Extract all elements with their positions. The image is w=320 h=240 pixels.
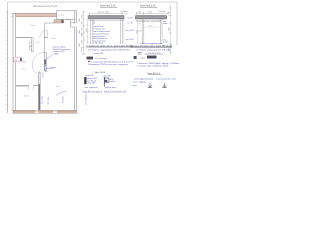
exterior wall top (tan) bbox=[13, 13, 57, 17]
S2 right wall line bbox=[160, 19, 162, 44]
door D2 swing arc bbox=[32, 53, 44, 74]
S1 band underline bbox=[89, 20, 125, 22]
svg-text:Зала: Зала bbox=[56, 86, 62, 88]
svg-text:2 Начало: ЖБИ (Выб. фунд.) 125: 2 Начало: ЖБИ (Выб. фунд.) 1250мм bbox=[137, 62, 180, 65]
svg-text:гайка М12: гайка М12 bbox=[87, 82, 95, 85]
S1 slab band bbox=[89, 16, 125, 19]
top-left corner bracket bbox=[11, 13, 13, 17]
svg-text:анкер Ø10: анкер Ø10 bbox=[103, 76, 111, 78]
bottom wall window gap 2 bbox=[53, 111, 57, 114]
svg-text:760: 760 bbox=[149, 25, 152, 27]
svg-text:900: 900 bbox=[82, 34, 84, 37]
V1 fixtures bbox=[29, 42, 31, 45]
bottom wall window gap 1 bbox=[35, 111, 38, 114]
svg-text:600: 600 bbox=[82, 15, 84, 18]
S1 left dim ticks bbox=[86, 25, 88, 42]
svg-text:грунт: грунт bbox=[133, 85, 137, 87]
right exterior wall bbox=[75, 11, 77, 111]
bottom exterior wall (tan) bbox=[13, 110, 77, 113]
svg-text:-0.150: -0.150 bbox=[163, 42, 168, 44]
svg-text:2-этажный жилой дом поз.14 по: 2-этажный жилой дом поз.14 по ГП bbox=[90, 60, 133, 63]
S2 far right dimension chain bbox=[169, 5, 173, 55]
svg-text:Стяжка 105 и 250мм 2х50: Стяжка 105 и 250мм 2х50 bbox=[137, 66, 168, 68]
svg-text:болт анкерный: болт анкерный bbox=[85, 86, 97, 89]
svg-text:ширина 1250: ширина 1250 bbox=[97, 11, 110, 13]
interior wall V3 bbox=[39, 72, 41, 110]
wall junction right bbox=[65, 20, 75, 28]
S1 left dim column bbox=[86, 16, 88, 44]
svg-text:песч. подушка: песч. подушка bbox=[133, 82, 147, 84]
svg-text:Узел №2 1:10: Узел №2 1:10 bbox=[140, 5, 156, 8]
pink box dark tick bbox=[20, 58, 22, 61]
svg-text:1200: 1200 bbox=[79, 18, 81, 22]
pink detail box bbox=[14, 57, 22, 62]
S1 rebar ticks bbox=[93, 20, 94, 25]
svg-text:220: 220 bbox=[169, 11, 171, 14]
mini detail B text rows bbox=[110, 79, 115, 83]
wall note text block (blue) bbox=[53, 47, 71, 56]
S1 left wall line bbox=[91, 19, 93, 44]
svg-text:1200: 1200 bbox=[79, 43, 81, 47]
svg-text:утепл.: утепл. bbox=[50, 67, 56, 69]
mini detail A text rows bbox=[87, 78, 97, 85]
interior tan wall under wing bbox=[54, 20, 64, 23]
svg-text:слой гидроизоляции: слой гидроизоляции bbox=[134, 78, 153, 81]
svg-text:дюбель расп.: дюбель расп. bbox=[105, 87, 117, 89]
svg-text:ПР-1 250: ПР-1 250 bbox=[42, 96, 44, 104]
interior wall V2 bbox=[44, 53, 46, 71]
svg-text:1280: 1280 bbox=[169, 27, 171, 31]
sheet frame top border bbox=[8, 2, 178, 113]
red dash bbox=[23, 61, 25, 64]
svg-text:ПР-2 120: ПР-2 120 bbox=[48, 97, 50, 105]
svg-text:С3-1: С3-1 bbox=[36, 42, 40, 44]
V2 hatch bottom tick bbox=[44, 71, 47, 73]
interior wall H1 bbox=[16, 37, 48, 39]
door D1 leaf bbox=[46, 30, 48, 38]
interior wall V1 bbox=[32, 38, 34, 52]
V2 insulation hatch (blue) bbox=[44, 64, 47, 70]
svg-text:1 ЖБ литье: 1 ЖБ литье bbox=[93, 42, 103, 44]
left exterior wall bbox=[13, 13, 16, 110]
svg-text:стяжка: стяжка bbox=[140, 57, 145, 59]
svg-text:Монтажный план 1П-1М: Монтажный план 1П-1М bbox=[33, 5, 57, 8]
V2 dark segment bbox=[44, 60, 46, 65]
svg-text:отм. 0.000 пол: отм. 0.000 пол bbox=[86, 93, 88, 105]
S1 right wall line bbox=[121, 19, 123, 44]
svg-text:120: 120 bbox=[138, 31, 141, 33]
svg-text:← h=220: ← h=220 bbox=[125, 17, 132, 19]
svg-text:600: 600 bbox=[82, 41, 84, 44]
svg-text:Либо: Либо bbox=[51, 38, 57, 40]
S2 top dimension line bbox=[137, 12, 169, 15]
benchmark symbol 1 bbox=[148, 83, 152, 88]
svg-text:анкер М12: анкер М12 bbox=[85, 75, 93, 77]
door D1 swing arc bbox=[40, 30, 48, 38]
svg-text:600: 600 bbox=[82, 28, 84, 31]
S2 mini figure dark block bbox=[147, 56, 157, 59]
H3 door notch bbox=[29, 85, 34, 89]
svg-text:900: 900 bbox=[82, 47, 84, 50]
top-right wing wall bbox=[57, 11, 77, 20]
S1 mini figure dark block bbox=[87, 57, 94, 60]
svg-text:— уклон 100: — уклон 100 bbox=[92, 53, 103, 55]
svg-text:Обшивка ГКЛ по метал. каркасу: Обшивка ГКЛ по метал. каркасу bbox=[88, 64, 128, 66]
S2 slab band bbox=[136, 16, 167, 19]
svg-text:Отметка: Отметка bbox=[159, 11, 166, 13]
interior wall H3 bbox=[16, 84, 39, 86]
left dimension chain bbox=[6, 10, 8, 113]
svg-text:Комн.: Комн. bbox=[60, 14, 66, 16]
S2 left wall line bbox=[142, 19, 144, 44]
left dimension tick marks bbox=[5, 13, 7, 110]
svg-text:← пл. 40: ← пл. 40 bbox=[125, 22, 132, 24]
svg-text:В-1 500: В-1 500 bbox=[63, 97, 65, 103]
S1 note block (blue) bbox=[93, 26, 110, 42]
right wall opening gap bbox=[74, 23, 77, 26]
svg-text:1500: 1500 bbox=[79, 30, 81, 34]
note line red tick bbox=[88, 61, 90, 63]
wall note leader bbox=[46, 55, 52, 60]
svg-text:*: * bbox=[66, 92, 67, 94]
blue leader with asterisk bbox=[56, 92, 66, 96]
dark block at wall end bbox=[62, 20, 64, 23]
S2 mini figure left glyph bbox=[134, 56, 137, 59]
svg-text:2500: 2500 bbox=[86, 28, 88, 32]
svg-text:2 Плита перекрытия ПК 63.12: 2 Плита перекрытия ПК 63.12 bbox=[88, 49, 130, 51]
S2 band underline bbox=[136, 19, 163, 21]
svg-text:Узел Б 1:10 лист 3а: Узел Б 1:10 лист 3а bbox=[104, 91, 126, 93]
svg-text:Узел №1 1:10: Узел №1 1:10 bbox=[100, 5, 116, 8]
svg-text:Доб. №19: Доб. №19 bbox=[95, 71, 106, 74]
svg-text:2 Плита перекрытия ПК-220: 2 Плита перекрытия ПК-220 bbox=[137, 49, 171, 51]
svg-text:ЗС: ЗС bbox=[14, 59, 17, 62]
svg-text:2 шов заполнить р-ром М100: 2 шов заполнить р-ром М100 bbox=[136, 21, 161, 23]
mini detail B block bbox=[105, 78, 109, 82]
plan right dimension chain bbox=[82, 10, 86, 55]
svg-text:Кухня: Кухня bbox=[24, 96, 30, 98]
S1 top dimension line bbox=[90, 12, 123, 15]
svg-text:снятие растит. слоя: снятие растит. слоя bbox=[156, 79, 176, 81]
S2 mini figure stack bbox=[138, 52, 142, 54]
svg-text:ПБ 26: ПБ 26 bbox=[43, 73, 45, 78]
svg-text:шайба: шайба bbox=[110, 80, 115, 83]
svg-text:L=1800: L=1800 bbox=[53, 54, 59, 56]
S1 right dim column bbox=[123, 16, 125, 44]
bottom wall end brackets bbox=[11, 110, 79, 113]
corridor wall line bbox=[45, 23, 54, 53]
mini detail B pin bbox=[103, 77, 105, 87]
svg-text:отм. -0.45: отм. -0.45 bbox=[126, 30, 134, 32]
S2 inner dim tick bbox=[145, 26, 160, 28]
svg-text:900: 900 bbox=[82, 21, 84, 24]
annotation leader to wall note bbox=[46, 68, 56, 69]
mini detail A dark bar bbox=[84, 77, 86, 84]
benchmark symbol 2 bbox=[162, 83, 166, 88]
svg-text:отм. низа плиты: отм. низа плиты bbox=[95, 58, 108, 60]
S2 left dim marks bbox=[137, 16, 139, 44]
svg-text:верха: верха bbox=[163, 23, 168, 25]
svg-text:50: 50 bbox=[138, 24, 140, 26]
svg-text:Тамб.: Тамб. bbox=[30, 25, 36, 27]
svg-text:низ 2.200: низ 2.200 bbox=[126, 39, 134, 41]
